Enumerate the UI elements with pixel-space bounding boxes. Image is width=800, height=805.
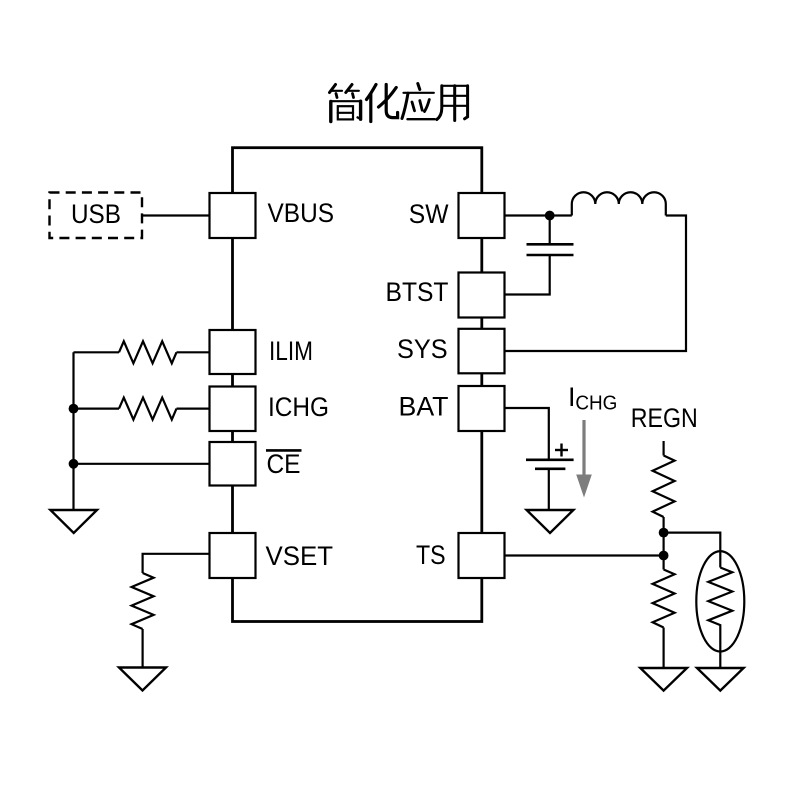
resistor R_REGN xyxy=(653,456,675,518)
resistor R_VSET xyxy=(132,573,154,629)
pin SW xyxy=(459,193,505,238)
svg-text:ICHG: ICHG xyxy=(268,392,329,422)
node junction TS xyxy=(659,551,669,561)
capacitor C_BTST plates xyxy=(527,243,574,246)
resistor R_TS lower xyxy=(653,570,675,628)
wire ICHG row xyxy=(74,408,120,410)
svg-text:SW: SW xyxy=(409,199,449,229)
wire to thermistor branch xyxy=(664,533,721,568)
thermistor RT1 zigzag xyxy=(708,568,732,630)
pin TS xyxy=(459,533,505,578)
wire battery to ground xyxy=(548,469,550,510)
char 应 xyxy=(402,84,435,120)
wire inductor to corner xyxy=(505,216,687,352)
pin ICHG xyxy=(210,387,256,432)
ground battery xyxy=(527,510,574,533)
wire CE row xyxy=(74,463,210,465)
svg-text:USB: USB xyxy=(71,199,121,229)
wire USB to VBUS xyxy=(142,214,210,216)
node SW junction xyxy=(545,211,555,221)
inductor L1 xyxy=(572,192,666,215)
resistor R_ILIM xyxy=(119,341,177,363)
wire BAT row xyxy=(505,408,549,459)
wire xyxy=(142,629,144,668)
svg-text:ILIM: ILIM xyxy=(269,336,313,366)
char 用 xyxy=(437,86,468,121)
pin SYS xyxy=(459,329,505,374)
resistor R_ICHG xyxy=(119,398,177,420)
battery BT1 plates xyxy=(526,458,574,461)
char 简 xyxy=(330,85,361,122)
svg-text:SYS: SYS xyxy=(397,334,448,364)
pin VSET xyxy=(210,533,256,578)
ground thermistor xyxy=(697,668,744,691)
svg-text:VSET: VSET xyxy=(266,541,334,571)
IC U1 body xyxy=(233,148,482,622)
title 简化应用 xyxy=(330,84,468,122)
wire lower resistor to ground xyxy=(662,628,664,669)
battery BT1 plus sign xyxy=(555,449,568,451)
svg-text:I: I xyxy=(568,382,576,412)
pin BTST xyxy=(459,273,505,318)
pin CE xyxy=(210,442,256,486)
wire VSET row xyxy=(143,554,210,573)
wire TS row xyxy=(505,554,664,556)
svg-text:CE: CE xyxy=(267,449,301,479)
node junction upper xyxy=(659,528,669,538)
ground TS resistor xyxy=(640,668,687,691)
ground VSET xyxy=(119,668,166,691)
wire thermistor to ground xyxy=(719,629,721,668)
wire ILIM row xyxy=(74,351,120,353)
pin VBUS xyxy=(210,193,256,238)
svg-text:BAT: BAT xyxy=(399,392,449,422)
svg-text:VBUS: VBUS xyxy=(268,198,335,228)
wire REGN lead xyxy=(662,441,664,456)
wire REGN resistor to TS node xyxy=(662,517,664,570)
wire BTST to capacitor xyxy=(505,255,550,295)
capacitor C_BTST top lead xyxy=(549,216,551,244)
svg-text:BTST: BTST xyxy=(386,277,449,307)
CE overline xyxy=(266,449,302,452)
thermistor RT1 ellipse xyxy=(696,551,744,651)
node junction ICHG xyxy=(69,404,79,414)
svg-text:REGN: REGN xyxy=(631,403,698,433)
svg-text:TS: TS xyxy=(416,540,446,570)
node junction CE xyxy=(69,459,79,469)
pin BAT xyxy=(459,386,505,431)
wire SW row xyxy=(505,214,572,216)
wire left vertical bus xyxy=(72,352,74,510)
USB source box xyxy=(50,193,143,239)
pin ILIM xyxy=(210,330,256,374)
char 化 xyxy=(367,85,398,122)
arrow I_CHG xyxy=(582,420,585,476)
ground left xyxy=(50,510,97,533)
svg-text:CHG: CHG xyxy=(575,393,617,415)
